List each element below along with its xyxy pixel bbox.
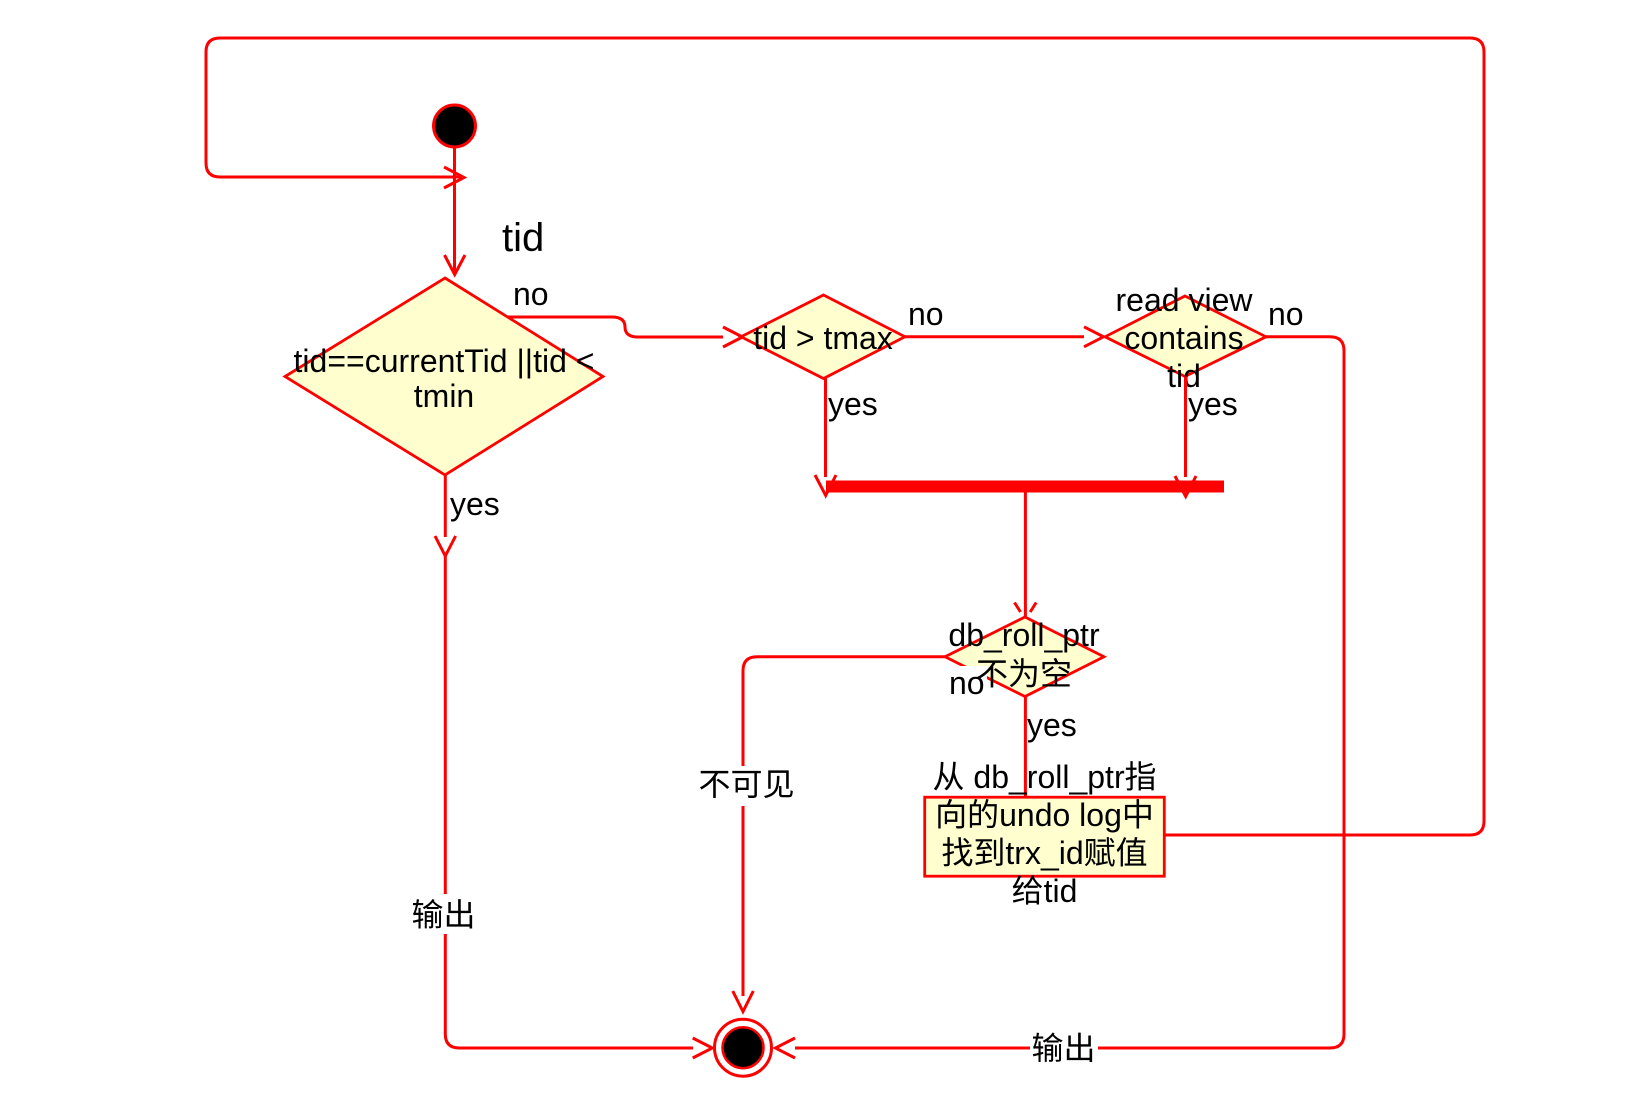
svg-text:no: no: [513, 276, 549, 312]
svg-text:trx_id: trx_id: [1005, 835, 1083, 871]
wire D4-yes to action: [1024, 697, 1027, 798]
svg-text:tid > tmax: tid > tmax: [753, 320, 893, 356]
wire bar to D4: [1024, 492, 1027, 618]
decision D3 read view contains tid: [1105, 296, 1266, 377]
wire start-to-decision1: [453, 148, 456, 273]
svg-text:tid==currentTid ||tid <: tid==currentTid ||tid <: [294, 343, 595, 379]
svg-text:read view: read view: [1116, 282, 1254, 318]
wire D1-yes to end: [444, 475, 447, 537]
svg-text:contains: contains: [1124, 320, 1243, 356]
wire D1-no to D2: [508, 317, 723, 337]
svg-text:undo log: undo log: [999, 797, 1122, 833]
svg-text:no: no: [1268, 296, 1304, 332]
svg-text:tmin: tmin: [414, 378, 474, 414]
svg-text:yes: yes: [1188, 386, 1238, 422]
label output right: [1033, 1033, 1063, 1063]
svg-text:no: no: [949, 665, 985, 701]
wire D2-yes to bar: [824, 379, 827, 478]
wire D3-no to end: [1098, 337, 1344, 1048]
svg-text:tid: tid: [1044, 873, 1078, 909]
label invisible: [700, 771, 729, 798]
label no D4: [946, 666, 987, 698]
svg-text:yes: yes: [828, 386, 878, 422]
svg-text:tid: tid: [502, 216, 544, 260]
label output left: [413, 899, 443, 929]
svg-text:db_roll_ptr: db_roll_ptr: [948, 617, 1100, 653]
sync bar: [826, 481, 1224, 493]
wire feedback-loop: [206, 38, 1484, 835]
svg-text:yes: yes: [450, 486, 500, 522]
end node: [715, 1019, 772, 1076]
svg-text:yes: yes: [1027, 707, 1077, 743]
action assign trx_id to tid: [925, 797, 1165, 876]
svg-text:db_roll_ptr: db_roll_ptr: [965, 759, 1125, 795]
decision D1 tid==currentTid ||tid < tmin: [285, 278, 603, 475]
wire D3-yes to bar: [1184, 377, 1187, 478]
wire D4-no to end: [743, 657, 945, 766]
start node: [434, 105, 476, 147]
decision D4 db_roll_ptr not null: [945, 617, 1104, 697]
decision D2 tid > tmax: [741, 295, 905, 379]
wire D2-no to D3: [905, 335, 1084, 338]
svg-text:no: no: [908, 296, 944, 332]
